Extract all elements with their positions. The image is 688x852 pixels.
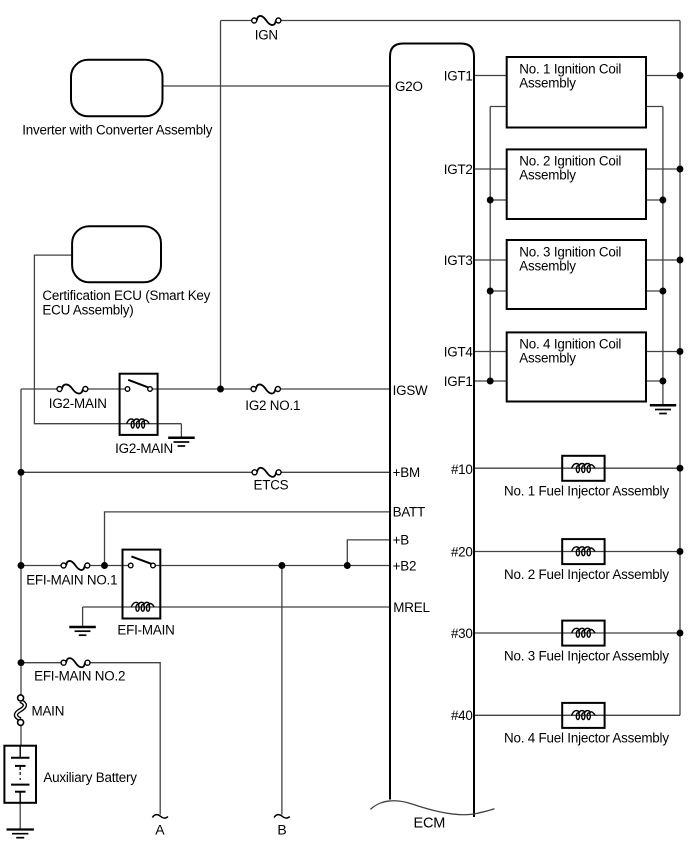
svg-text:Assembly: Assembly	[519, 168, 576, 183]
svg-text:ECM: ECM	[414, 816, 446, 832]
svg-text:A: A	[155, 821, 165, 837]
svg-text:MREL: MREL	[393, 600, 429, 615]
svg-text:IGT3: IGT3	[444, 253, 473, 268]
svg-text:IG2 NO.1: IG2 NO.1	[245, 398, 300, 413]
svg-text:No. 2 Ignition Coil: No. 2 Ignition Coil	[519, 154, 621, 169]
svg-text:Assembly: Assembly	[519, 351, 576, 366]
svg-text:G2O: G2O	[395, 79, 423, 94]
svg-text:No. 3 Ignition Coil: No. 3 Ignition Coil	[519, 244, 621, 259]
svg-text:Assembly: Assembly	[519, 75, 576, 90]
svg-text:IGSW: IGSW	[393, 383, 428, 398]
svg-text:No. 1 Ignition Coil: No. 1 Ignition Coil	[519, 61, 621, 76]
svg-text:#20: #20	[451, 544, 473, 559]
svg-text:EFI-MAIN NO.1: EFI-MAIN NO.1	[26, 572, 117, 587]
svg-text:ETCS: ETCS	[254, 477, 289, 492]
svg-text:IG2-MAIN: IG2-MAIN	[49, 396, 107, 411]
svg-text:#40: #40	[451, 708, 473, 723]
svg-text:+BM: +BM	[393, 465, 420, 480]
svg-text:No. 4 Ignition Coil: No. 4 Ignition Coil	[519, 337, 621, 352]
svg-text:EFI-MAIN: EFI-MAIN	[117, 623, 174, 638]
svg-text:BATT: BATT	[393, 505, 425, 520]
svg-text:#10: #10	[451, 462, 473, 477]
svg-text:#30: #30	[451, 626, 473, 641]
svg-text:IGT4: IGT4	[444, 344, 474, 359]
svg-text:ECU Assembly): ECU Assembly)	[42, 302, 133, 317]
svg-text:IGF1: IGF1	[444, 374, 473, 389]
svg-text:Inverter with Converter Assemb: Inverter with Converter Assembly	[22, 123, 213, 138]
svg-text:IGT1: IGT1	[444, 68, 473, 83]
svg-text:No. 3 Fuel Injector Assembly: No. 3 Fuel Injector Assembly	[504, 648, 669, 663]
svg-text:MAIN: MAIN	[32, 703, 65, 718]
svg-text:IGT2: IGT2	[444, 162, 473, 177]
svg-text:No. 4 Fuel Injector Assembly: No. 4 Fuel Injector Assembly	[504, 731, 669, 746]
svg-text:B: B	[277, 821, 286, 837]
svg-text:+B: +B	[393, 533, 410, 548]
svg-text:Auxiliary Battery: Auxiliary Battery	[43, 770, 137, 785]
svg-text:EFI-MAIN NO.2: EFI-MAIN NO.2	[34, 668, 125, 683]
svg-text:No. 2 Fuel Injector Assembly: No. 2 Fuel Injector Assembly	[504, 567, 669, 582]
svg-text:Assembly: Assembly	[519, 258, 576, 273]
svg-text:+B2: +B2	[393, 558, 417, 573]
svg-text:IG2-MAIN: IG2-MAIN	[115, 441, 173, 456]
svg-text:IGN: IGN	[255, 27, 278, 42]
svg-text:No. 1 Fuel Injector Assembly: No. 1 Fuel Injector Assembly	[504, 484, 669, 499]
svg-text:Certification ECU (Smart Key: Certification ECU (Smart Key	[42, 288, 210, 303]
